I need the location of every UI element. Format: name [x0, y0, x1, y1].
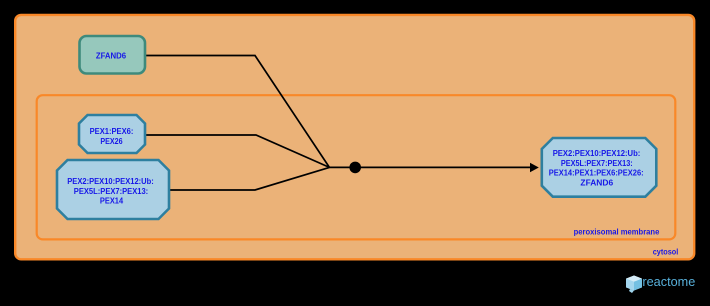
complex node PEX2:PEX10:PEX12:Ub:PEX5L:PEX7:PEX13:PEX14 — [57, 160, 169, 219]
wire from PEX2:PEX10:PEX12:Ub:PEX5L:PEX7:PEX13:PEX14 to junction — [169, 167, 329, 190]
svg-text:PEX26: PEX26 — [100, 137, 123, 146]
svg-text:reactome: reactome — [642, 274, 695, 289]
complex node PEX2:PEX10:PEX12:Ub:PEX5L:PEX7:PEX13:PEX14:PEX1:PEX6:PEX26:ZFAND6 — [542, 138, 657, 197]
protein node ZFAND6 — [80, 36, 146, 74]
svg-text:PEX14: PEX14 — [100, 196, 124, 205]
wire from ZFAND6 to junction — [146, 56, 329, 168]
complex node PEX1:PEX6:PEX26 — [79, 115, 145, 153]
wire junction to product arrow — [329, 166, 531, 168]
svg-text:peroxisomal membrane: peroxisomal membrane — [574, 228, 660, 237]
svg-text:PEX14:PEX1:PEX6:PEX26:: PEX14:PEX1:PEX6:PEX26: — [549, 169, 644, 178]
compartment cytosol — [15, 15, 694, 259]
compartment peroxisomal membrane — [37, 95, 676, 239]
svg-text:ZFAND6: ZFAND6 — [580, 178, 613, 187]
svg-text:PEX2:PEX10:PEX12:Ub:: PEX2:PEX10:PEX12:Ub: — [67, 177, 154, 186]
svg-text:PEX5L:PEX7:PEX13:: PEX5L:PEX7:PEX13: — [74, 187, 148, 196]
svg-text:cytosol: cytosol — [653, 248, 679, 257]
reaction node (binding) — [349, 162, 361, 174]
arrowhead into product — [530, 163, 539, 173]
svg-text:PEX2:PEX10:PEX12:Ub:: PEX2:PEX10:PEX12:Ub: — [553, 149, 641, 158]
svg-text:ZFAND6: ZFAND6 — [96, 51, 127, 60]
svg-text:PEX1:PEX6:: PEX1:PEX6: — [90, 127, 134, 136]
wire from PEX1:PEX6:PEX26 to junction — [146, 135, 329, 167]
reactome logo cube — [626, 276, 642, 294]
svg-text:PEX5L:PEX7:PEX13:: PEX5L:PEX7:PEX13: — [561, 159, 633, 168]
